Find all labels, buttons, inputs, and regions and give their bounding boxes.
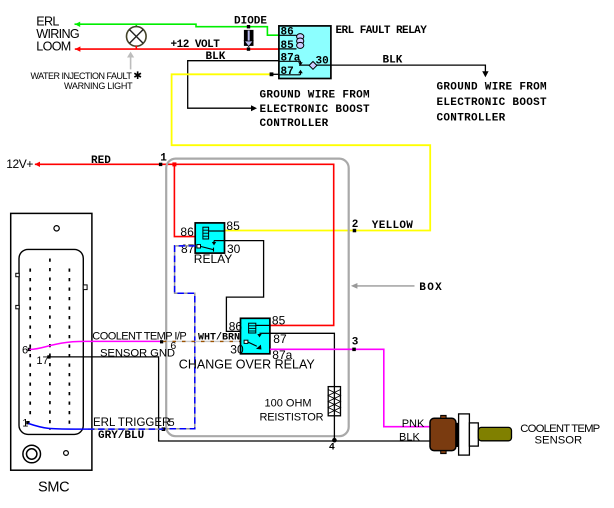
BOX outline	[166, 159, 349, 437]
svg-text:CONTROLLER: CONTROLLER	[437, 113, 506, 125]
pin 87 relay K2 arrow	[260, 332, 270, 334]
svg-text:85: 85	[272, 314, 286, 328]
pin 30 relay K1	[214, 240, 225, 242]
svg-text:SMC: SMC	[38, 479, 69, 495]
svg-text:CONTROLLER: CONTROLLER	[260, 118, 329, 130]
pin 85 relay K1	[209, 230, 225, 232]
sensor tab bottom	[441, 451, 446, 454]
svg-text:BOX: BOX	[419, 282, 443, 294]
svg-text:85: 85	[281, 40, 295, 52]
coil top relay	[297, 34, 304, 40]
svg-text:3: 3	[352, 337, 359, 349]
SMC pin column 2	[49, 259, 51, 431]
svg-text:CHANGE OVER RELAY: CHANGE OVER RELAY	[179, 358, 316, 372]
SMC screw circle	[23, 445, 41, 463]
svg-text:86: 86	[180, 225, 194, 239]
svg-text:1: 1	[160, 153, 167, 165]
svg-text:85: 85	[226, 219, 240, 233]
wire red +12V	[75, 48, 280, 50]
node yellow-87	[270, 72, 274, 76]
svg-text:30: 30	[230, 342, 244, 356]
svg-text:SENSOR: SENSOR	[535, 435, 583, 447]
sensor shoulder	[469, 423, 478, 446]
svg-text:ERL FAULT RELAY: ERL FAULT RELAY	[336, 25, 428, 37]
wire magenta coolant temp ip	[30, 341, 161, 349]
svg-text:YELLOW: YELLOW	[372, 220, 414, 232]
wire black 87a to ground	[188, 61, 279, 108]
node 1	[159, 163, 162, 166]
node 5	[162, 427, 166, 431]
red junction dot	[172, 162, 176, 166]
svg-text:DIODE: DIODE	[234, 16, 267, 28]
svg-text:87: 87	[181, 242, 195, 256]
relay U1 ERL FAULT RELAY box	[279, 26, 331, 79]
node 3	[352, 348, 356, 352]
node 4	[332, 438, 337, 443]
wire yellow from pin 87	[172, 74, 431, 230]
SMC key tab right	[83, 285, 87, 290]
wire WHT/BRN dashed	[163, 340, 244, 342]
sensor hex nut	[459, 414, 470, 455]
coil relay K2	[249, 323, 256, 333]
wire red lamp stub	[135, 46, 137, 49]
svg-text:GROUND WIRE FROM: GROUND WIRE FROM	[437, 82, 548, 94]
svg-text:RELAY: RELAY	[194, 252, 232, 266]
SMC pin column 3	[68, 269, 70, 431]
wire BLK from pin 30	[299, 65, 485, 71]
svg-text:GRY/BLU: GRY/BLU	[98, 430, 144, 442]
relay K1 RELAY box	[195, 223, 224, 253]
svg-text:30: 30	[316, 55, 329, 67]
wire green lamp stub	[135, 24, 137, 27]
pin 85 relay K2	[256, 324, 270, 326]
SMC pin 1	[26, 421, 29, 424]
SMC small circle bottom	[64, 451, 69, 456]
SMC key tab left 1	[16, 273, 19, 276]
contact arrow from 87	[300, 73, 302, 75]
wire blue erl trigger	[29, 424, 89, 430]
arrowhead green left	[75, 22, 80, 27]
svg-text:PNK: PNK	[402, 418, 425, 430]
svg-text:1: 1	[22, 418, 28, 430]
svg-text:6: 6	[22, 344, 28, 356]
svg-text:ELECTRONIC BOOST: ELECTRONIC BOOST	[260, 104, 371, 116]
arrowhead red left	[75, 46, 80, 51]
svg-text:4: 4	[329, 442, 335, 453]
svg-text:ERL TRIGGER: ERL TRIGGER	[93, 417, 170, 429]
svg-text:12V+: 12V+	[6, 157, 33, 171]
SMC pin 6	[28, 348, 31, 351]
svg-text:87: 87	[273, 332, 287, 346]
svg-text:WARNING LIGHT: WARNING LIGHT	[64, 81, 133, 91]
wire red 12V feed	[35, 164, 334, 325]
diode D1	[247, 25, 250, 28]
sensor body brown	[430, 418, 456, 450]
svg-text:17: 17	[36, 355, 48, 367]
svg-text:SENSOR GND: SENSOR GND	[100, 347, 175, 359]
SMC connector outer	[11, 213, 92, 470]
contact arrow from 87a	[299, 61, 301, 62]
svg-text:86: 86	[229, 319, 243, 333]
svg-text:+12 VOLT: +12 VOLT	[171, 39, 221, 51]
SMC connector inner	[19, 249, 83, 434]
resistor R1 100 ohm	[328, 387, 340, 416]
svg-text:86: 86	[281, 26, 294, 38]
wire green ERL loom	[75, 24, 280, 35]
wire blue dashed trigger	[165, 246, 195, 429]
svg-text:COOLENT TEMP: COOLENT TEMP	[520, 423, 599, 435]
svg-text:LOOM: LOOM	[36, 40, 70, 54]
SMC pin column 1	[29, 269, 31, 420]
svg-text:100 OHM: 100 OHM	[265, 398, 312, 410]
switch lever relay K2	[244, 340, 248, 343]
SMC pin 17	[47, 355, 50, 358]
relay K2 CHANGE OVER RELAY box	[241, 318, 270, 354]
svg-text:BLK: BLK	[383, 55, 403, 67]
wire red branch to relay 86	[174, 164, 195, 236]
SMC key tab left 2	[16, 305, 19, 308]
wire magenta CO 87a to sensor	[270, 349, 430, 426]
svg-text:BLK: BLK	[399, 431, 420, 443]
svg-text:RED: RED	[91, 155, 111, 167]
svg-text:ELECTRONIC BOOST: ELECTRONIC BOOST	[437, 97, 548, 109]
svg-text:87a: 87a	[281, 52, 301, 64]
SMC small circle top	[54, 226, 59, 231]
sensor tab top	[441, 415, 446, 418]
coil relay K1	[203, 227, 209, 239]
svg-text:87: 87	[281, 66, 294, 78]
svg-text:GROUND WIRE FROM: GROUND WIRE FROM	[260, 90, 371, 102]
node 6	[160, 340, 163, 343]
wire black relay30 to CO relay 86	[225, 241, 264, 332]
switch lever relay K1	[197, 245, 201, 248]
black pin stub to 87	[271, 73, 280, 75]
svg-text:COOLENT TEMP I/P: COOLENT TEMP I/P	[92, 330, 186, 342]
grey arrow to lamp	[130, 55, 132, 69]
svg-text:2: 2	[352, 219, 359, 231]
sensor thread olive	[478, 427, 511, 440]
grey arrow to box	[356, 285, 415, 287]
wire black CO87 to resistor to node4	[270, 333, 335, 441]
sensor black collar	[456, 423, 459, 447]
svg-text:REISTISTOR: REISTISTOR	[260, 412, 324, 424]
node 2	[353, 229, 357, 233]
pin 30 diamond	[309, 62, 317, 70]
wire black sensor gnd	[49, 357, 430, 441]
lamp warning light	[127, 27, 147, 47]
